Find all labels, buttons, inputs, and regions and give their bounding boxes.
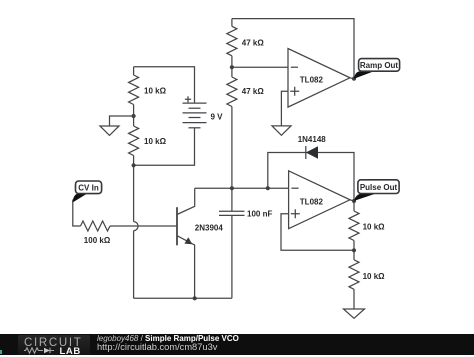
svg-text:10 kΩ: 10 kΩ [144, 137, 167, 146]
svg-text:100 kΩ: 100 kΩ [84, 236, 111, 245]
svg-text:TL082: TL082 [300, 198, 324, 207]
svg-text:10 kΩ: 10 kΩ [144, 87, 167, 96]
svg-text:9 V: 9 V [211, 112, 224, 121]
svg-text:Pulse Out: Pulse Out [360, 183, 398, 192]
svg-text:TL082: TL082 [300, 75, 324, 84]
svg-text:10 kΩ: 10 kΩ [363, 223, 386, 232]
svg-text:CV In: CV In [78, 184, 99, 193]
svg-text:47 kΩ: 47 kΩ [242, 39, 265, 48]
svg-text:100 nF: 100 nF [247, 209, 272, 218]
svg-text:2N3904: 2N3904 [195, 223, 224, 232]
svg-text:Ramp Out: Ramp Out [360, 61, 399, 70]
svg-text:47 kΩ: 47 kΩ [242, 87, 265, 96]
svg-text:1N4148: 1N4148 [298, 135, 327, 144]
svg-text:10 kΩ: 10 kΩ [363, 272, 386, 281]
